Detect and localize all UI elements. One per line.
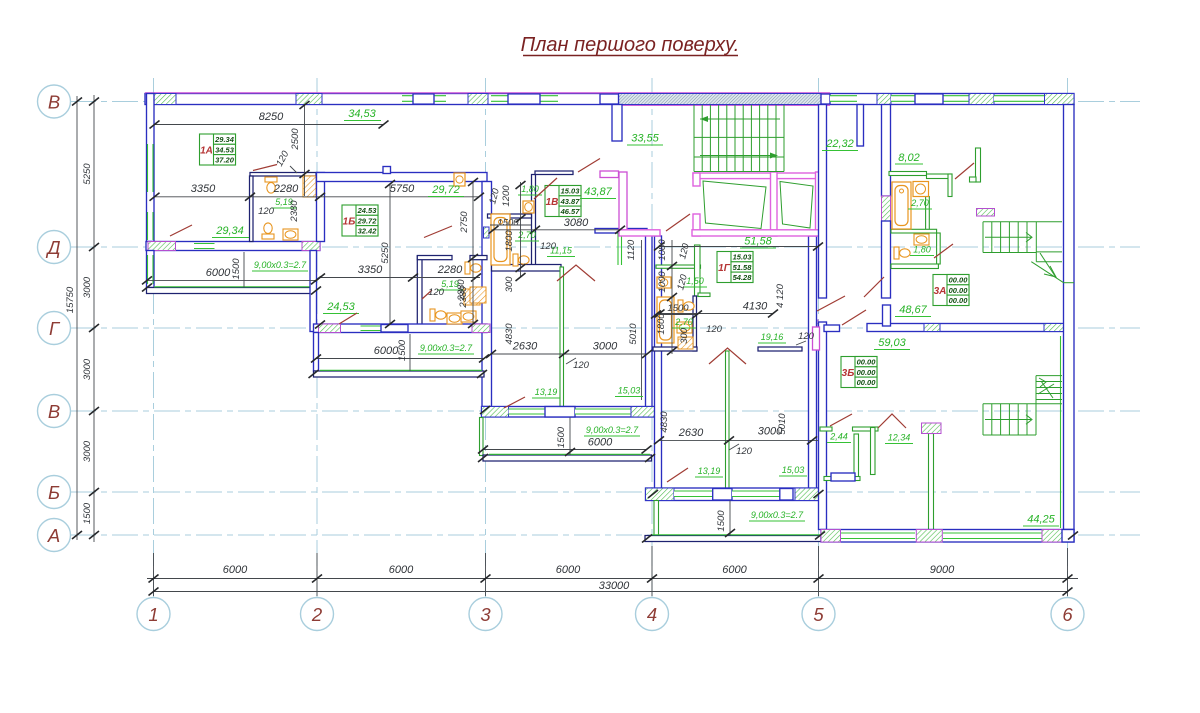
svg-text:00.00: 00.00 xyxy=(949,296,969,305)
wall between 1G and right section xyxy=(819,105,827,299)
svg-text:12,34: 12,34 xyxy=(888,433,911,443)
svg-text:24.53: 24.53 xyxy=(357,206,378,215)
pier hatch purple right xyxy=(302,242,320,251)
toilet xyxy=(513,254,529,266)
svg-text:2500: 2500 xyxy=(290,128,301,151)
svg-text:4130: 4130 xyxy=(743,301,768,313)
svg-text:1080: 1080 xyxy=(657,239,668,261)
svg-text:6000: 6000 xyxy=(374,345,399,357)
svg-text:120: 120 xyxy=(258,206,275,217)
svg-text:59,03: 59,03 xyxy=(878,337,906,349)
partition green long xyxy=(929,434,934,530)
bathtub xyxy=(892,182,911,229)
svg-text:3Б: 3Б xyxy=(842,368,855,379)
svg-text:5750: 5750 xyxy=(390,183,415,195)
vertical grid line 2 xyxy=(316,78,318,597)
wall stub above top wall xyxy=(383,167,391,174)
svg-text:8250: 8250 xyxy=(259,111,284,123)
svg-text:29.34: 29.34 xyxy=(214,135,235,144)
svg-text:48,67: 48,67 xyxy=(899,304,927,316)
svg-text:1,80: 1,80 xyxy=(913,245,931,255)
svg-text:8,02: 8,02 xyxy=(898,152,919,164)
svg-text:2280: 2280 xyxy=(273,183,299,195)
svg-text:5250: 5250 xyxy=(380,242,391,264)
svg-text:1800: 1800 xyxy=(656,313,667,335)
window top band xyxy=(402,94,446,104)
svg-text:51.58: 51.58 xyxy=(733,263,753,272)
svg-text:43.87: 43.87 xyxy=(560,197,581,206)
pier hatch xyxy=(969,94,994,105)
window left wall lower xyxy=(148,212,154,240)
window green xyxy=(674,491,713,497)
corridor left wall magenta xyxy=(600,171,619,178)
pier hatch purple xyxy=(319,324,341,333)
svg-text:00.00: 00.00 xyxy=(857,378,877,387)
window top band xyxy=(491,94,558,104)
svg-text:Б: Б xyxy=(48,482,60,503)
room partition green xyxy=(726,351,730,489)
dimension 8250 xyxy=(150,111,389,129)
pier hatch xyxy=(482,407,509,418)
svg-text:46.57: 46.57 xyxy=(560,207,581,216)
svg-text:В: В xyxy=(48,92,60,113)
room partition green xyxy=(560,267,564,407)
terrace bottom wall xyxy=(483,455,652,461)
stair-band heavy hatch xyxy=(619,94,822,105)
terrace bottom wall xyxy=(645,536,821,542)
dimension 4130 xyxy=(655,283,787,317)
svg-text:29,72: 29,72 xyxy=(431,184,460,196)
bath partition middle xyxy=(891,229,937,233)
svg-text:00.00: 00.00 xyxy=(949,286,969,295)
svg-text:3080: 3080 xyxy=(564,217,589,229)
svg-text:1500: 1500 xyxy=(82,502,93,524)
pier hatch purple xyxy=(148,242,176,251)
svg-text:300: 300 xyxy=(679,327,690,344)
bath partition horizontal xyxy=(250,173,316,177)
svg-text:6000: 6000 xyxy=(556,564,581,576)
svg-text:120: 120 xyxy=(428,287,445,298)
magenta facade line bottom of stair band xyxy=(618,104,830,106)
svg-text:2: 2 xyxy=(311,604,323,625)
door swing red 1V bath xyxy=(534,178,557,199)
right exterior wall xyxy=(1064,105,1075,530)
bath partition top xyxy=(889,172,927,176)
terrace left wall green xyxy=(480,418,484,456)
shaft top wall xyxy=(693,173,822,179)
svg-text:32.42: 32.42 xyxy=(358,227,378,236)
vertical grid line 6 xyxy=(1067,78,1069,597)
svg-text:15.03: 15.03 xyxy=(733,253,753,262)
elevator car 1 xyxy=(703,181,766,229)
window top band right xyxy=(994,96,1044,102)
partition right segment xyxy=(758,347,802,351)
toilet 1B xyxy=(465,262,481,274)
area table 1G xyxy=(717,252,753,283)
small 120 labels xyxy=(258,149,815,355)
svg-text:4: 4 xyxy=(647,604,657,625)
vent block purple xyxy=(977,209,995,217)
svg-text:4830: 4830 xyxy=(659,411,670,433)
shaft bottom wall xyxy=(619,230,660,236)
window block xyxy=(780,489,793,501)
staircase right lower xyxy=(983,376,1062,435)
row G wall xyxy=(867,324,1070,332)
pier hatch xyxy=(924,324,940,332)
toilet xyxy=(262,223,274,239)
sink xyxy=(914,234,929,245)
svg-text:В: В xyxy=(48,401,60,422)
pier hatch purple xyxy=(472,324,490,333)
svg-text:6000: 6000 xyxy=(389,564,414,576)
dimension 51,58 line xyxy=(654,243,823,251)
grid axes xyxy=(70,78,1140,597)
top exterior wall band row B xyxy=(145,93,1074,105)
green hatch on wall xyxy=(484,227,490,238)
fixtures 1V bathroom xyxy=(454,173,534,322)
window block xyxy=(381,325,408,333)
svg-text:1200: 1200 xyxy=(501,185,512,207)
svg-text:1000: 1000 xyxy=(657,271,668,293)
bottom wall row G xyxy=(314,324,488,333)
svg-text:54.28: 54.28 xyxy=(733,273,753,282)
svg-text:9000: 9000 xyxy=(930,564,955,576)
fixtures 1B bathroom xyxy=(430,309,462,324)
svg-text:3000: 3000 xyxy=(82,358,93,380)
green area labels xyxy=(212,108,1059,526)
elevator shaft and corridor walls xyxy=(600,171,822,236)
svg-text:План першого поверху.: План першого поверху. xyxy=(521,34,740,56)
svg-text:34,53: 34,53 xyxy=(348,108,376,120)
dimension 5250 vertical 1B xyxy=(380,180,395,328)
dimension chain 120 1200 1800 300 xyxy=(490,181,531,281)
apartment 1V walls xyxy=(480,171,656,461)
bath partition vertical xyxy=(250,176,254,242)
bottom wall row D xyxy=(146,242,320,251)
washer xyxy=(657,277,671,288)
window green xyxy=(841,533,915,539)
washer xyxy=(913,182,929,197)
svg-text:37.20: 37.20 xyxy=(215,156,235,165)
svg-text:1500: 1500 xyxy=(397,339,408,361)
vent orange xyxy=(470,287,486,303)
window top band right xyxy=(891,94,969,104)
bottom wall row V xyxy=(482,407,656,418)
terrace bottom wall xyxy=(314,371,485,377)
svg-text:120: 120 xyxy=(706,324,723,335)
svg-text:2280: 2280 xyxy=(437,264,463,276)
svg-text:9,00х0.3=2.7: 9,00х0.3=2.7 xyxy=(586,425,639,435)
svg-text:13,19: 13,19 xyxy=(698,466,721,476)
pier purple xyxy=(1042,530,1062,543)
svg-text:6000: 6000 xyxy=(722,564,747,576)
svg-text:1120: 1120 xyxy=(626,239,637,260)
sink xyxy=(447,313,462,324)
corner sink xyxy=(523,201,534,213)
shaft left wall xyxy=(693,173,700,186)
axis circles left xyxy=(38,85,71,552)
bath partition bottom xyxy=(891,264,938,269)
wall stub top xyxy=(857,105,864,147)
shaft middle wall xyxy=(771,172,778,236)
pier hatch xyxy=(646,488,675,501)
pier hatch xyxy=(1044,324,1070,332)
bath partition vertical xyxy=(532,175,536,268)
horizontal grid line A xyxy=(70,534,1140,536)
fixtures 1A bathroom xyxy=(262,177,298,240)
bath step wall xyxy=(698,293,710,297)
svg-text:2,70: 2,70 xyxy=(910,198,929,208)
bath partition inner xyxy=(488,214,532,218)
partitions 3B rooms xyxy=(820,427,832,431)
svg-text:9,00х0.3=2.7: 9,00х0.3=2.7 xyxy=(254,260,307,270)
svg-text:2,70: 2,70 xyxy=(517,230,536,240)
svg-text:22,32: 22,32 xyxy=(825,138,854,150)
dimension 3350 2280 row xyxy=(150,183,326,201)
svg-text:29,34: 29,34 xyxy=(215,225,244,237)
right wall 1G xyxy=(809,236,817,489)
svg-text:2380: 2380 xyxy=(456,279,467,302)
bath partition vertical xyxy=(693,296,697,351)
svg-text:1,80: 1,80 xyxy=(521,184,539,194)
svg-text:4830: 4830 xyxy=(504,323,515,345)
dimension 5010 vertical 1V xyxy=(504,240,642,400)
horizontal grid line V xyxy=(70,410,1140,412)
svg-text:2630: 2630 xyxy=(678,427,704,439)
pier hatch xyxy=(296,94,322,105)
svg-text:51,58: 51,58 xyxy=(744,236,772,248)
pier purple xyxy=(916,530,942,543)
window row G wall xyxy=(361,326,382,331)
stove 1B kitchen xyxy=(454,173,465,186)
right section walls xyxy=(813,105,1075,543)
step wall below D xyxy=(310,251,317,332)
bathtub xyxy=(491,214,510,265)
window green vertical xyxy=(618,233,622,265)
window left wall xyxy=(148,144,154,192)
horizontal grid line D xyxy=(70,246,1140,248)
staircase top xyxy=(694,105,784,172)
terrace left wall xyxy=(147,251,155,288)
svg-text:15750: 15750 xyxy=(65,286,76,313)
window row D wall xyxy=(194,244,215,249)
svg-text:00.00: 00.00 xyxy=(949,276,969,285)
bottom wall row B2 xyxy=(646,488,822,501)
svg-text:2750: 2750 xyxy=(459,211,470,234)
axis circles bottom xyxy=(137,598,1084,631)
bathtub xyxy=(657,297,674,343)
svg-text:9,00х0.3=2.7: 9,00х0.3=2.7 xyxy=(420,343,473,353)
door swing lines red xyxy=(170,159,974,483)
svg-text:А: А xyxy=(47,525,60,546)
pier hatch xyxy=(795,488,821,501)
apartment 1B walls xyxy=(314,167,492,407)
toilet xyxy=(894,247,910,259)
svg-text:5250: 5250 xyxy=(82,163,93,185)
svg-text:300: 300 xyxy=(504,276,515,293)
svg-text:2,44: 2,44 xyxy=(829,432,848,442)
bottom wall right section xyxy=(821,530,1074,543)
vent shaft orange xyxy=(303,176,316,197)
svg-text:6000: 6000 xyxy=(223,564,248,576)
magenta facade line top xyxy=(145,92,830,94)
horizontal grid line B2 xyxy=(70,491,1140,493)
svg-text:3000: 3000 xyxy=(82,276,93,298)
svg-text:2630: 2630 xyxy=(512,341,538,353)
svg-text:9,00х0.3=2.7: 9,00х0.3=2.7 xyxy=(751,510,804,520)
corner pier hatch top right xyxy=(1045,94,1075,105)
fixtures 1G bathroom xyxy=(657,277,694,349)
svg-text:6000: 6000 xyxy=(588,437,613,449)
top wall 1B xyxy=(317,173,488,182)
left dimension chain xyxy=(65,95,99,542)
dimension chain 2750 2380 xyxy=(459,178,478,328)
svg-text:15.03: 15.03 xyxy=(561,187,581,196)
bath partition right 2.70 xyxy=(926,197,930,230)
vent orange xyxy=(678,337,693,349)
dimension 6000 1500 terrace 1B xyxy=(311,334,489,371)
sink xyxy=(283,229,298,240)
svg-text:4 120: 4 120 xyxy=(775,283,786,307)
window green xyxy=(943,533,1045,539)
svg-text:1800: 1800 xyxy=(504,230,515,252)
dimension 1500 terrace 1G xyxy=(716,501,735,538)
window green xyxy=(732,491,780,497)
svg-text:2380: 2380 xyxy=(289,200,300,223)
toilet xyxy=(430,309,446,321)
dimension 5750 xyxy=(320,183,484,201)
svg-text:43,87: 43,87 xyxy=(584,186,612,198)
svg-text:00.00: 00.00 xyxy=(857,358,877,367)
pier hatch xyxy=(877,94,891,105)
svg-text:33000: 33000 xyxy=(599,580,630,592)
area table 1V xyxy=(545,186,581,217)
title xyxy=(521,34,740,56)
area table 1B xyxy=(342,205,378,236)
window block xyxy=(545,407,575,418)
pier hatch xyxy=(631,407,656,418)
sink xyxy=(677,322,692,333)
svg-text:3: 3 xyxy=(480,604,491,625)
vertical grid line 5 xyxy=(818,78,820,597)
right wall column 4 xyxy=(646,233,653,407)
terrace left wall xyxy=(314,333,319,372)
svg-text:1500: 1500 xyxy=(667,303,689,314)
svg-text:24,53: 24,53 xyxy=(326,301,355,313)
corner tick marks xyxy=(142,284,1078,543)
partition above bath xyxy=(656,265,701,268)
svg-text:120: 120 xyxy=(540,241,557,252)
svg-text:120: 120 xyxy=(798,331,815,342)
shaft right wall xyxy=(816,172,823,236)
svg-text:3350: 3350 xyxy=(191,183,216,195)
svg-text:15,03: 15,03 xyxy=(782,465,805,475)
svg-text:33,55: 33,55 xyxy=(631,133,659,145)
left exterior wall xyxy=(147,94,155,242)
svg-text:3000: 3000 xyxy=(82,440,93,462)
svg-text:1Б: 1Б xyxy=(343,217,356,228)
svg-text:15,03: 15,03 xyxy=(618,386,641,396)
svg-text:29.72: 29.72 xyxy=(357,216,378,225)
svg-text:Д: Д xyxy=(45,237,60,258)
window top band right xyxy=(830,96,857,102)
svg-text:2,70: 2,70 xyxy=(674,317,693,327)
svg-text:1А: 1А xyxy=(200,146,213,157)
apartment 1G walls xyxy=(645,236,821,542)
svg-text:6: 6 xyxy=(1062,604,1073,625)
magenta pier xyxy=(811,320,819,334)
svg-text:19,16: 19,16 xyxy=(761,332,784,342)
svg-text:120: 120 xyxy=(573,360,590,371)
area table 3B xyxy=(841,357,877,388)
apartment 1A walls xyxy=(146,94,622,332)
bath partition vertical xyxy=(417,256,422,329)
horizontal grid line B top xyxy=(70,101,1140,103)
pier hatch xyxy=(152,94,176,105)
dimension 2630 3000 1G xyxy=(654,411,818,457)
svg-text:1500: 1500 xyxy=(716,510,727,532)
pier hatch xyxy=(468,94,488,105)
svg-text:00.00: 00.00 xyxy=(857,368,877,377)
vent shaft orange xyxy=(464,289,480,305)
partition room 1.50 right xyxy=(695,245,701,296)
fixtures 3A bathroom xyxy=(892,182,929,260)
horizontal grid line G xyxy=(70,327,1140,329)
svg-text:3000: 3000 xyxy=(593,341,618,353)
svg-text:5010: 5010 xyxy=(628,323,639,345)
area table 3A xyxy=(933,275,969,306)
window green xyxy=(575,409,631,414)
terrace left wall xyxy=(654,501,659,536)
dimension 2630 3000 1V xyxy=(486,341,652,372)
svg-text:1: 1 xyxy=(148,604,158,625)
window block xyxy=(713,489,732,501)
svg-text:1В: 1В xyxy=(546,197,559,208)
svg-text:1Г: 1Г xyxy=(718,263,731,274)
svg-text:1500: 1500 xyxy=(231,258,242,280)
corridor top wall xyxy=(535,171,573,175)
wall column 2 xyxy=(317,173,325,242)
vertical grid line 1 xyxy=(153,78,155,597)
svg-text:13,19: 13,19 xyxy=(535,387,558,397)
dimension 6000 1500 terrace 1V xyxy=(478,418,652,457)
pier purple xyxy=(821,530,841,543)
interior wall x885 xyxy=(882,105,891,197)
svg-text:6000: 6000 xyxy=(206,267,231,279)
svg-text:3А: 3А xyxy=(934,286,947,297)
terrace window left xyxy=(148,255,154,284)
svg-text:44,25: 44,25 xyxy=(1027,514,1055,526)
right wall column 3 xyxy=(482,182,492,407)
svg-text:3350: 3350 xyxy=(358,264,383,276)
svg-text:1500: 1500 xyxy=(556,426,567,448)
svg-text:5: 5 xyxy=(813,604,824,625)
bath partition horizontal xyxy=(417,256,452,260)
toilet xyxy=(678,300,694,312)
bath bottom wall xyxy=(492,265,562,272)
svg-text:120: 120 xyxy=(736,446,753,457)
left wall column 4 lower xyxy=(655,236,662,489)
toilet xyxy=(265,177,277,193)
wall right part xyxy=(595,229,647,234)
wall stub x612 xyxy=(612,105,622,142)
pier purple xyxy=(922,423,942,434)
area table 1A xyxy=(200,134,236,165)
dimension 1500 3080 xyxy=(489,217,626,234)
dimension 6000 1500 terrace 1A xyxy=(142,252,321,287)
vertical grid line 3 xyxy=(485,78,487,597)
pier hatch vent xyxy=(882,196,891,222)
